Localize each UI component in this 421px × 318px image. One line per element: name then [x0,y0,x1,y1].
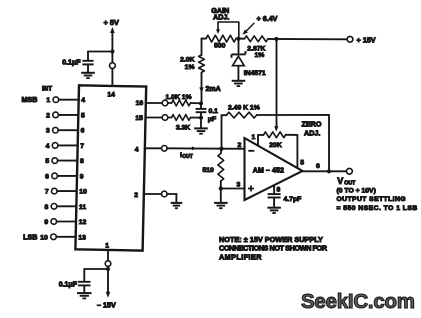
ground (below C1) [81,72,95,74]
junction node bias2 [199,116,203,120]
svg-text:20K: 20K [269,142,282,149]
wire to op-amp pin3 [221,188,245,190]
svg-text:(0 TO + 10V): (0 TO + 10V) [337,188,376,195]
resistor R2 2.0K 1% [199,55,205,72]
capacitor C2 0.1uF (bottom bypass) [78,281,90,283]
svg-text:3: 3 [46,128,50,135]
wire bit 8 to pin 11 [57,205,77,207]
svg-text:ZERO: ZERO [302,119,322,128]
svg-text:1.0K 1%: 1.0K 1% [166,94,192,101]
wire bit 5 to pin 8 [58,160,78,162]
wire pin2 ground drop [175,194,177,203]
ground (zener) [232,80,246,82]
svg-text:10: 10 [40,234,48,241]
svg-text:1: 1 [105,243,109,250]
terminal +15V [347,36,353,42]
svg-text:12: 12 [79,219,87,226]
svg-text:6: 6 [45,173,49,180]
wire output [303,170,347,172]
svg-text:2.49 K 1%: 2.49 K 1% [228,105,260,112]
wire feedback to output [257,114,329,116]
svg-text:OUT: OUT [182,154,193,160]
wire to node [191,102,202,104]
resistor R3 1.0K 1% [172,100,191,106]
svg-text:– 15V: – 15V [97,301,116,310]
capacitor C1 0.1uF (top-left bypass) [82,60,93,62]
svg-text:0.1μF: 0.1μF [59,282,78,289]
svg-text:+ 6.4V: + 6.4V [257,14,278,23]
diode D1 IN4571 zener [232,53,246,55]
potentiometer R1 500 (gain adj) [206,35,236,42]
svg-text:3.3K: 3.3K [176,125,190,132]
potentiometer R8 20K zero adj [258,134,264,136]
wire pin16 [146,102,162,104]
svg-text:5: 5 [300,160,304,167]
svg-text:V: V [337,176,343,186]
wire bit 10 to pin 13 [56,236,76,238]
capacitor C4 4.7pF [268,193,281,195]
input bit 9 terminal [51,219,57,225]
svg-text:7: 7 [80,143,84,150]
svg-text:= 550 NSEC. TO 1 LSB: = 550 NSEC. TO 1 LSB [337,205,418,212]
svg-text:AMPLIFIER: AMPLIFIER [219,252,262,261]
wire +15V down to wiper [276,39,278,128]
svg-text:6: 6 [81,128,85,135]
wiper link of 500 pot [218,22,239,37]
wire zener top [238,39,240,53]
svg-text:3: 3 [237,182,241,189]
wire bypass branch [88,51,112,53]
wire pin1 bottom [107,251,109,261]
svg-text:4: 4 [135,147,139,154]
wire bit 7 to pin 10 [57,190,77,192]
pin8 stub [273,185,275,193]
resistor R6 2.49K 1% feedback [226,112,256,118]
inverting input marker [248,150,254,152]
svg-text:14: 14 [107,91,115,98]
wire pot left [202,38,207,40]
svg-text:8: 8 [80,158,84,165]
svg-text:OUT: OUT [344,180,356,186]
svg-text:11: 11 [79,204,86,211]
svg-text:4.7pF: 4.7pF [284,196,302,203]
svg-text:LSB: LSB [23,232,37,241]
wiper arrow 20K [274,126,278,131]
svg-text:NOTE: ± 15V POWER SUPPLY: NOTE: ± 15V POWER SUPPLY [219,235,323,244]
input bit 2 terminal [53,112,59,118]
resistor R4 3.3K [172,115,191,121]
input bit 8 terminal [51,204,57,210]
svg-text:μF: μF [208,116,216,123]
wire from gain pot down [201,39,203,55]
ground (below C2) [77,292,92,294]
op-amp U2 AM-452 [245,138,303,200]
svg-text:8: 8 [45,204,49,211]
wire bit 2 to pin 5 [58,114,78,116]
wire bit 9 to pin 12 [57,221,77,223]
wire 510 node to ground [220,189,222,203]
svg-text:16: 16 [136,100,144,107]
wire bypass branch bottom [84,268,108,270]
svg-text:+ 5V: + 5V [104,18,119,27]
svg-text:5: 5 [45,158,49,165]
ground (bias node) [194,127,208,129]
current arrow Iout [192,146,197,150]
svg-text:500: 500 [214,43,226,50]
resistor R7 510 [220,149,223,154]
wire bit 6 to pin 9 [57,175,77,177]
svg-text:8: 8 [277,186,281,193]
pin connector circle pin1 [105,261,111,267]
wire pot to junction [236,38,239,40]
ground (DAC pin2) [171,202,183,204]
terminal circle pin15 [162,115,168,121]
ground (4.7pF) [267,207,281,209]
junction Iout/510/feedback/pin2 [219,147,223,151]
svg-text:OUTPUT SETTLING: OUTPUT SETTLING [337,196,406,203]
svg-text:0.1μF: 0.1μF [62,60,81,67]
terminal Vout [347,168,353,174]
svg-text:2: 2 [238,142,242,149]
svg-text:AM – 452: AM – 452 [253,167,284,174]
svg-text:9: 9 [44,219,48,226]
svg-text:5: 5 [81,112,85,119]
svg-text:MSB: MSB [22,95,38,104]
svg-text:SeekIC.com: SeekIC.com [301,290,415,313]
junction 510/pin3/ground [219,186,223,190]
svg-text:0.1: 0.1 [209,108,219,115]
wire pin4 Iout [145,147,162,149]
svg-text:BIT: BIT [42,85,52,92]
node +5V supply [111,30,113,64]
wire bias to ground [200,118,202,129]
pin5 stub [296,135,298,168]
svg-text:2: 2 [46,112,50,119]
svg-text:2.0K: 2.0K [180,57,194,64]
DAC U1 body (10-bit DAC) [75,85,146,250]
non-inverting input marker [248,188,254,190]
resistor R5 2.87K 1% [239,38,245,40]
svg-text:6: 6 [316,163,320,170]
svg-text:1%: 1% [185,64,195,71]
wire 510 bottom [220,181,222,189]
wire bit 3 to pin 6 [58,129,78,131]
svg-text:1%: 1% [255,52,265,59]
input bit 5 terminal [52,158,58,164]
input bit 4 terminal [52,143,58,149]
junction node bias [199,101,203,105]
svg-text:2mA: 2mA [206,86,221,93]
wire pin15 [146,117,163,119]
svg-text:ADJ.: ADJ. [304,129,320,138]
svg-text:13: 13 [78,234,86,241]
junction +15V branch [274,37,278,41]
wire feedback left drop [221,115,223,149]
svg-text:IN4571: IN4571 [244,70,266,77]
input bit 6 terminal [52,173,58,179]
junction feedback/output [327,169,331,173]
svg-text:7: 7 [45,189,49,196]
svg-text:CONNECTIONS NOT SHOWN FOR: CONNECTIONS NOT SHOWN FOR [219,244,328,253]
wire to +15V [268,38,347,40]
junction -15V/bypass [106,267,110,271]
svg-text:+ 15V: + 15V [357,35,376,44]
input bit 10 terminal [51,234,57,240]
terminal circle pin16 [162,100,168,106]
wire -15V arrow [107,269,109,295]
svg-text:4: 4 [46,143,50,150]
svg-text:9: 9 [80,173,84,180]
junction +5V/bypass [110,49,114,53]
current arrow 2mA [199,87,203,93]
ground (510 node) [214,202,228,204]
pin1 stub [257,135,259,146]
svg-text:ADJ.: ADJ. [213,13,229,22]
svg-text:1: 1 [46,97,50,104]
terminal circle pin4 [162,146,168,152]
input bit 7 terminal [52,188,58,194]
input bit 3 terminal [53,127,59,133]
capacitor C3 0.1uF (bias node) [200,103,202,108]
wire 2mA current path [201,72,203,101]
svg-text:4: 4 [81,97,85,104]
svg-text:510: 510 [202,167,214,174]
wire to node2 [191,117,202,119]
junction +6.4V node [236,37,240,41]
terminal circle DAC pin2 [162,191,168,197]
input bit 1 terminal [53,97,59,103]
svg-text:1: 1 [252,134,256,141]
pin connector circle pin14 [110,63,116,69]
wire DAC pin2 [144,193,162,195]
svg-text:10: 10 [79,189,87,196]
wire bit 4 to pin 7 [58,144,78,146]
wire bit 1 to pin 4 [59,99,79,101]
svg-text:15: 15 [135,115,143,122]
svg-text:2: 2 [134,192,138,199]
